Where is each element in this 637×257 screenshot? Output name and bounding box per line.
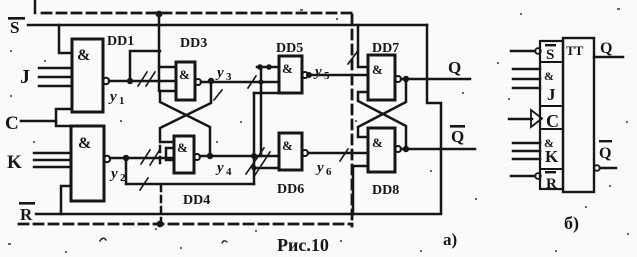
gate DD1 bbox=[72, 39, 103, 112]
svg-text:3: 3 bbox=[226, 71, 232, 83]
wire: y1 up-step to S line bbox=[130, 51, 160, 81]
wire: transfer vertical A (y3 row to DD6) bbox=[253, 93, 256, 184]
svg-text:DD8: DD8 bbox=[372, 183, 399, 198]
part label b) bbox=[564, 213, 579, 234]
wire: R branch into DD2 bbox=[61, 186, 71, 214]
svg-text:&: & bbox=[372, 62, 383, 77]
b) S cell bbox=[545, 44, 556, 63]
wire: Qbar output bbox=[401, 148, 475, 151]
gate DD5 bbox=[279, 56, 302, 93]
wire: branch into DD7 top input bbox=[358, 25, 368, 67]
b) Qbar output wire with bubble bbox=[594, 165, 600, 171]
svg-text:&: & bbox=[282, 61, 293, 76]
svg-text:&: & bbox=[77, 47, 90, 64]
svg-text:R: R bbox=[546, 176, 557, 192]
gate DD7 bbox=[368, 55, 395, 100]
svg-text:S: S bbox=[546, 47, 554, 63]
input K label bbox=[7, 152, 22, 173]
output Q label bbox=[448, 58, 461, 77]
svg-text:K: K bbox=[7, 152, 22, 173]
wire: master cross coupling X bbox=[160, 81, 211, 142]
svg-text:DD5: DD5 bbox=[276, 41, 303, 56]
wire: Q output bbox=[401, 78, 470, 81]
dashed IC boundary box bbox=[19, 13, 352, 226]
svg-text:y: y bbox=[315, 160, 324, 176]
svg-text:&: & bbox=[544, 69, 554, 83]
node: divider junction bottom bbox=[157, 221, 164, 228]
svg-text:а): а) bbox=[443, 230, 457, 249]
node y1 label bbox=[108, 89, 125, 107]
label DD3 bbox=[180, 36, 207, 51]
svg-text:DD1: DD1 bbox=[107, 34, 134, 49]
wire: slave cross coupling X bbox=[358, 79, 406, 137]
b) J section bbox=[544, 69, 554, 83]
wire: transfer vertical B (to DD5 upper input) bbox=[260, 67, 263, 156]
wire: R branch into DD8 via x=353 bbox=[353, 166, 368, 214]
svg-text:DD3: DD3 bbox=[180, 36, 207, 51]
svg-text:K: K bbox=[545, 147, 559, 166]
svg-text:S: S bbox=[10, 18, 19, 37]
wire: branch into DD1 top input bbox=[59, 25, 72, 53]
input C label bbox=[5, 113, 19, 134]
svg-text:TT: TT bbox=[566, 43, 584, 58]
input R label bbox=[19, 202, 35, 224]
svg-text:&: & bbox=[78, 135, 91, 152]
svg-text:DD7: DD7 bbox=[372, 41, 399, 56]
svg-text:DD6: DD6 bbox=[277, 182, 304, 197]
svg-text:&: & bbox=[177, 140, 188, 155]
svg-text:&: & bbox=[372, 135, 383, 150]
b) S input wire with inversion bubble bbox=[511, 50, 535, 53]
svg-text:J: J bbox=[20, 66, 30, 88]
b) C input wire bbox=[509, 118, 532, 121]
svg-text:4: 4 bbox=[226, 166, 232, 178]
gate DD6 bbox=[279, 133, 302, 170]
wire: y1 from DD1 to DD3 bbox=[109, 80, 176, 83]
C tab between DD1 and DD2 bbox=[56, 109, 72, 126]
svg-text:DD4: DD4 bbox=[183, 193, 210, 208]
label DD6 bbox=[277, 182, 304, 197]
node y5 label bbox=[313, 64, 330, 82]
gate DD4 bbox=[174, 136, 194, 173]
wire: DD3 lower input stub bbox=[160, 90, 176, 93]
node y2 label bbox=[109, 166, 126, 184]
caption Рис.10 bbox=[277, 235, 329, 255]
b) C cell with dynamic input triangle bbox=[546, 111, 559, 131]
node: divider junction top bbox=[156, 11, 163, 18]
node y6 label bbox=[315, 160, 332, 178]
label DD4 bbox=[183, 193, 210, 208]
top lead tick bbox=[34, 0, 37, 13]
label DD5 bbox=[276, 41, 303, 56]
svg-text:C: C bbox=[546, 111, 559, 131]
svg-text:5: 5 bbox=[324, 70, 330, 82]
node y3 junction bbox=[208, 78, 214, 84]
output Qbar label bbox=[450, 125, 465, 146]
node y2 junction bbox=[123, 155, 129, 161]
b) K input wires bbox=[513, 142, 540, 145]
wire: y2 under-route to transfer net bbox=[126, 158, 254, 184]
label DD1 bbox=[107, 34, 134, 49]
wire: y5 from DD5 to DD7 bbox=[308, 74, 368, 77]
wire: C input line bbox=[21, 120, 56, 123]
svg-text:y: y bbox=[215, 65, 224, 81]
node y3 label bbox=[215, 65, 232, 83]
b) R cell bbox=[545, 171, 557, 192]
b) body rectangle bbox=[563, 38, 594, 192]
svg-text:1: 1 bbox=[119, 95, 125, 107]
input J label bbox=[20, 66, 30, 88]
svg-text:C: C bbox=[5, 113, 19, 134]
wire: S feedback top line y=25 bbox=[28, 24, 427, 27]
b) K section bbox=[544, 136, 554, 150]
b) J input wires bbox=[513, 68, 540, 71]
svg-text:Q: Q bbox=[600, 40, 612, 57]
part label a) bbox=[443, 230, 457, 249]
node y1 junction bbox=[127, 78, 133, 84]
svg-text:Q: Q bbox=[448, 58, 461, 77]
svg-text:y: y bbox=[108, 89, 117, 105]
svg-text:Q: Q bbox=[599, 145, 611, 162]
svg-text:y: y bbox=[215, 160, 224, 176]
node y4 junction bbox=[207, 153, 213, 159]
wire: y4 from DD4 to DD6 bbox=[200, 155, 279, 158]
wire: J input lines bbox=[39, 67, 72, 70]
wire: branch into DD3 top input bbox=[160, 66, 176, 69]
svg-text:J: J bbox=[547, 85, 556, 104]
stray pen squiggle bbox=[100, 238, 106, 241]
wire: K input lines bbox=[34, 152, 71, 155]
wire: R bottom line y=214 bbox=[36, 213, 441, 216]
b) R input wire with inversion bubble bbox=[511, 175, 535, 178]
label DD7 bbox=[372, 41, 399, 56]
svg-text:y: y bbox=[313, 64, 322, 80]
svg-text:&: & bbox=[282, 138, 293, 153]
label DD8 bbox=[372, 183, 399, 198]
svg-text:y: y bbox=[109, 166, 118, 182]
hand slash marks bbox=[138, 52, 357, 190]
svg-text:б): б) bbox=[564, 213, 579, 234]
b) input field column bbox=[540, 41, 563, 189]
wire: y3 from DD3 to DD5 bbox=[201, 81, 279, 84]
svg-text:Рис.10: Рис.10 bbox=[277, 235, 329, 255]
svg-text:R: R bbox=[20, 205, 33, 224]
svg-text:Q: Q bbox=[451, 127, 464, 146]
b) Q output wire bbox=[594, 56, 623, 59]
wire: y6 from DD6 to DD8 bbox=[308, 152, 368, 155]
wire: right loop down bbox=[427, 25, 441, 213]
gate DD2 bbox=[71, 126, 104, 201]
node y4 label bbox=[215, 160, 232, 178]
svg-text:&: & bbox=[179, 67, 190, 82]
gate DD8 bbox=[368, 128, 395, 172]
wire: y2 from DD2 to DD4 bbox=[110, 157, 174, 160]
svg-text:6: 6 bbox=[326, 166, 332, 178]
gate DD3 bbox=[176, 62, 195, 100]
divider / S-branch vertical x=160 bbox=[158, 14, 161, 91]
input S label bbox=[8, 17, 25, 37]
